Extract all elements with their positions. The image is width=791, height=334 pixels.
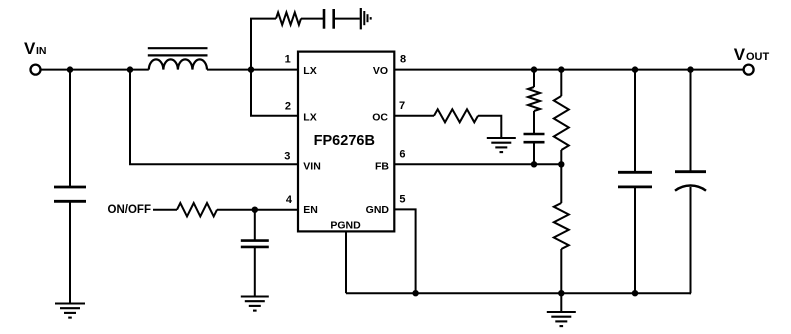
svg-text:5: 5 bbox=[399, 193, 405, 205]
ground snubber (rotated) bbox=[360, 8, 362, 29]
inductor L1 bbox=[149, 59, 207, 69]
node junction comp-bottom bbox=[531, 161, 537, 167]
resistor R-comp bbox=[528, 87, 540, 111]
node junction fb-divider bbox=[558, 161, 564, 167]
IC U1 FP6276B body bbox=[298, 52, 394, 232]
ground input bbox=[55, 302, 85, 304]
svg-text:VO: VO bbox=[373, 65, 388, 77]
node junction cap1-top bbox=[632, 66, 638, 72]
wire LX pin 2 bbox=[251, 70, 298, 116]
node junction pin5-gnd bbox=[412, 290, 418, 296]
resistor R-OC bbox=[434, 109, 478, 122]
svg-text:V: V bbox=[24, 39, 36, 58]
wire to input cap bbox=[69, 70, 71, 187]
capacitor C-comp bbox=[524, 133, 545, 136]
node junction main-gnd bbox=[558, 290, 564, 296]
ground OC bbox=[487, 137, 516, 139]
node junction comp-R bbox=[531, 66, 537, 72]
wire fb top R bottom bbox=[560, 150, 562, 164]
svg-text:6: 6 bbox=[399, 149, 405, 161]
wire EN cap to ground bbox=[254, 247, 256, 296]
resistor R-FB1 bbox=[554, 96, 569, 150]
svg-text:LX: LX bbox=[303, 112, 316, 124]
wire inductor to pin 1 bbox=[207, 69, 298, 71]
node junction LX bbox=[248, 66, 254, 72]
node junction VIN-pin3 bbox=[127, 66, 133, 72]
svg-text:FP6276B: FP6276B bbox=[314, 133, 375, 149]
node junction cap2-top bbox=[687, 66, 693, 72]
wire ground rail bbox=[346, 292, 691, 294]
node VIN terminal bbox=[31, 65, 41, 75]
wire fb lower R to ground rail bbox=[560, 249, 562, 293]
svg-text:2: 2 bbox=[285, 101, 291, 113]
wire PGND drop bbox=[345, 231, 347, 293]
wire GND pin 5 bbox=[394, 209, 415, 293]
wire OC pin 7 bbox=[394, 115, 434, 117]
resistor R-EN bbox=[177, 203, 217, 216]
svg-text:PGND: PGND bbox=[330, 219, 361, 231]
wire EN junction to cap bbox=[254, 210, 256, 241]
svg-text:V: V bbox=[734, 45, 746, 64]
svg-text:IN: IN bbox=[36, 45, 47, 57]
capacitor C-in bbox=[54, 186, 86, 189]
svg-text:GND: GND bbox=[366, 204, 390, 216]
wire snubber to ground bbox=[334, 18, 360, 20]
wire resistor to pin 4 bbox=[217, 209, 298, 211]
wire VIN rail to inductor bbox=[41, 69, 149, 71]
inductor L1 core bbox=[148, 47, 208, 49]
node junction EN bbox=[252, 207, 258, 213]
capacitor C-EN bbox=[241, 239, 269, 242]
svg-text:OUT: OUT bbox=[746, 51, 770, 63]
svg-text:4: 4 bbox=[286, 194, 293, 206]
wire comp C to FB bbox=[533, 142, 535, 164]
wire ON/OFF to resistor bbox=[153, 209, 177, 211]
wire FB pin 6 bbox=[394, 163, 561, 165]
wire cap2 top bbox=[690, 70, 692, 172]
wire VO output rail bbox=[394, 69, 743, 71]
svg-text:3: 3 bbox=[284, 150, 290, 162]
svg-text:EN: EN bbox=[303, 204, 318, 216]
svg-text:ON/OFF: ON/OFF bbox=[108, 204, 151, 216]
resistor R-FB2 bbox=[554, 203, 569, 249]
svg-text:LX: LX bbox=[303, 65, 316, 77]
wire cap1 top bbox=[634, 70, 636, 172]
wire VIN pin 3 bbox=[130, 70, 298, 165]
svg-text:8: 8 bbox=[400, 54, 406, 66]
wire snubber riser bbox=[251, 19, 276, 70]
ground EN bbox=[241, 295, 269, 297]
capacitor C-snubber bbox=[323, 9, 326, 29]
wire cap2 bottom bbox=[690, 187, 693, 293]
capacitor C-out1 bbox=[618, 171, 652, 174]
wire fb top R bbox=[560, 70, 562, 96]
svg-text:VIN: VIN bbox=[303, 161, 321, 173]
wire comp branch top bbox=[533, 70, 535, 87]
node VOUT terminal bbox=[744, 65, 754, 75]
wire fb lower R top bbox=[560, 164, 562, 203]
node junction cap1-gnd bbox=[632, 290, 638, 296]
node junction fb-R-top bbox=[558, 66, 564, 72]
node junction input-cap bbox=[67, 66, 73, 72]
svg-text:FB: FB bbox=[375, 161, 389, 173]
wire snubber mid bbox=[301, 18, 324, 20]
wire main ground stub bbox=[560, 293, 562, 311]
wire comp R to C bbox=[533, 111, 535, 134]
svg-text:7: 7 bbox=[399, 100, 405, 112]
capacitor C-out2 (polarized) bbox=[675, 170, 706, 173]
wire OC resistor to ground bbox=[478, 116, 501, 138]
resistor R-snubber bbox=[276, 12, 301, 24]
wire cap1 bottom bbox=[634, 187, 636, 293]
svg-text:1: 1 bbox=[285, 53, 291, 65]
svg-text:OC: OC bbox=[372, 112, 388, 124]
wire input cap to ground bbox=[69, 201, 71, 303]
ground main bbox=[547, 311, 576, 313]
